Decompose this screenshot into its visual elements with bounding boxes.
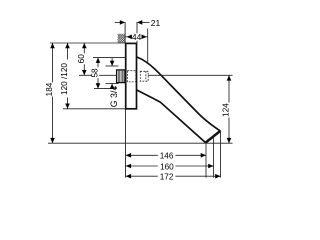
dimension G 3/4 arrows [106, 58, 120, 108]
hidden pipe end dashed line [145, 71, 147, 81]
wall surface line upper [124, 22, 126, 43]
svg-text:60: 60 [77, 54, 86, 64]
baseline [48, 142, 233, 144]
spout bottom outline [137, 90, 206, 143]
svg-text:160: 160 [160, 162, 174, 171]
svg-text:184: 184 [45, 82, 54, 96]
svg-text:58: 58 [91, 68, 100, 78]
dimension 160 [126, 162, 214, 171]
wall hatch [118, 34, 125, 43]
union nut G3/4 [117, 70, 125, 83]
dimension 172 [126, 172, 221, 181]
dimension 60 [77, 43, 117, 75]
dimension 184 [45, 43, 55, 143]
dimension 58 [91, 58, 125, 89]
dimension 146 [126, 152, 206, 161]
spout top outline [137, 57, 221, 131]
spout tip face [206, 131, 221, 143]
dimension 44 [126, 29, 148, 63]
svg-text:44: 44 [132, 32, 142, 42]
spout tip face inner line [205, 130, 220, 142]
svg-text:21: 21 [151, 18, 161, 28]
svg-text:G 3/4: G 3/4 [109, 86, 119, 108]
wall surface line lower [125, 109, 127, 178]
escutcheon flange [126, 43, 137, 108]
svg-text:120 /120: 120 /120 [60, 63, 69, 95]
svg-text:124: 124 [222, 103, 231, 117]
svg-text:146: 146 [160, 152, 174, 161]
spout body [137, 57, 221, 143]
tip extension verticals [205, 143, 207, 177]
dimension 120/120 [60, 43, 125, 109]
dimension 21 [115, 18, 161, 44]
hidden pipe dashed (in spout) [140, 71, 148, 81]
pipe centre extension line right [148, 74, 232, 76]
dimension 124 [222, 75, 232, 143]
hidden pipe dashed (in flange) [127, 71, 135, 82]
svg-text:172: 172 [160, 172, 174, 181]
top reference extension line [50, 42, 126, 44]
